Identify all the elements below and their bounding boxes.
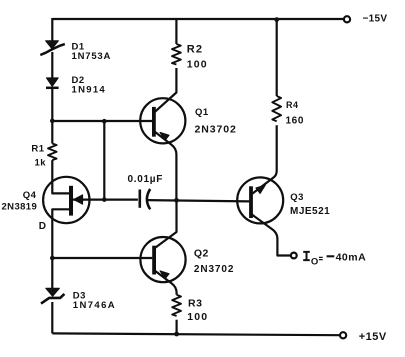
svg-text:40mA: 40mA — [336, 252, 367, 264]
svg-text:0.01µF: 0.01µF — [128, 174, 164, 185]
terminal +15V — [340, 332, 346, 338]
svg-text:2N3819: 2N3819 — [2, 202, 38, 213]
label Io = -40mA — [303, 252, 334, 260]
svg-text:1N746A: 1N746A — [73, 300, 116, 311]
wire Q2 base bus — [52, 257, 152, 259]
svg-text:R3: R3 — [188, 297, 202, 309]
node junction dot on base bus — [102, 119, 107, 124]
diode D2 1N914 — [46, 78, 59, 88]
resistor R4 — [272, 96, 281, 121]
diode D1 zener 1N753A — [40, 41, 65, 55]
diode D3 zener 1N746A — [41, 288, 64, 303]
wire D1 to D2 — [51, 52, 53, 78]
node junction dot cap node — [174, 198, 179, 203]
svg-text:Q2: Q2 — [194, 248, 209, 260]
svg-text:R4: R4 — [286, 100, 299, 110]
resistor R3 — [172, 295, 181, 316]
svg-text:+15V: +15V — [359, 331, 387, 343]
node junction dot at gate wire — [102, 197, 107, 202]
wire D2 to R1 (through node) — [51, 88, 53, 144]
svg-text:Q3: Q3 — [290, 192, 304, 203]
wire node drop (base bus to gate wire) — [103, 121, 105, 199]
svg-text:100: 100 — [187, 58, 208, 70]
svg-text:O: O — [311, 257, 319, 268]
svg-text:1N914: 1N914 — [72, 85, 107, 96]
wire top rail (-15V bus) — [52, 18, 344, 20]
svg-text:D: D — [39, 221, 47, 232]
terminal output Io — [291, 253, 297, 259]
wire R4 to Q3 emitter — [252, 125, 276, 193]
wire Q3 collector to output terminal — [252, 215, 291, 256]
transistor Q4 JFET 2N3819 — [43, 177, 89, 223]
svg-text:R1: R1 — [31, 143, 44, 154]
wire bottom rail (+15V bus) — [52, 333, 340, 335]
node junction dot left bus — [50, 119, 55, 124]
wire top rail to R4 — [276, 20, 278, 96]
svg-text:−15V: −15V — [363, 14, 388, 25]
resistor R2 — [172, 44, 181, 65]
wire Q4 gate to capacitor — [71, 199, 138, 201]
transistor Q1 2N3702 — [140, 98, 185, 199]
wire R2 to Q1 collector — [154, 68, 176, 112]
wire Q2 collector up to cap node — [155, 200, 177, 248]
svg-text:2N3702: 2N3702 — [195, 123, 237, 135]
node junction dot R4 at top rail — [274, 17, 279, 22]
svg-text:MJE521: MJE521 — [290, 206, 330, 217]
wire Q1 base bus — [52, 120, 152, 122]
wire R1 to Q4 drain — [52, 160, 70, 193]
terminal -15V — [344, 16, 350, 22]
svg-text:100: 100 — [187, 311, 208, 323]
svg-text:Q4: Q4 — [23, 190, 37, 201]
wire D3 to bottom rail — [51, 302, 53, 333]
resistor R1 — [48, 144, 57, 161]
svg-text:1k: 1k — [35, 157, 47, 168]
node junction dot R3 at rail — [174, 332, 179, 337]
svg-text:1N753A: 1N753A — [72, 51, 112, 62]
svg-text:160: 160 — [286, 115, 305, 126]
capacitor C1 0.01uF — [140, 189, 150, 209]
transistor Q3 MJE521 — [237, 177, 283, 223]
svg-text:R2: R2 — [187, 44, 203, 56]
wire left drop from top rail to D1 — [51, 18, 53, 41]
wire R3 to bottom rail — [176, 320, 178, 335]
wire Q4 source down to D3 node — [52, 209, 70, 288]
svg-text:2N3702: 2N3702 — [194, 264, 234, 275]
wire capacitor to Q3 base — [147, 200, 250, 201]
wire top rail to R2 — [175, 19, 177, 44]
svg-text:Q1: Q1 — [195, 107, 209, 118]
node junction dot D3 node — [50, 256, 55, 261]
transistor Q2 2N3702 — [140, 237, 185, 295]
